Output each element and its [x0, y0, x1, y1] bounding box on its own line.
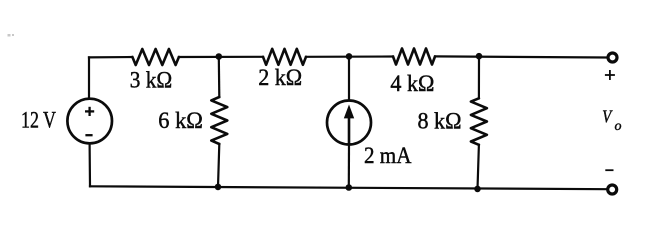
svg-text:o: o	[615, 119, 622, 134]
svg-text:12 V: 12 V	[21, 108, 56, 133]
svg-text:2 mA: 2 mA	[364, 143, 412, 168]
svg-text:2 kΩ: 2 kΩ	[258, 65, 302, 90]
svg-text:8 kΩ: 8 kΩ	[418, 109, 462, 134]
svg-text:6 kΩ: 6 kΩ	[158, 108, 203, 133]
svg-text:3 kΩ: 3 kΩ	[130, 67, 173, 92]
svg-text:4 kΩ: 4 kΩ	[390, 71, 434, 96]
